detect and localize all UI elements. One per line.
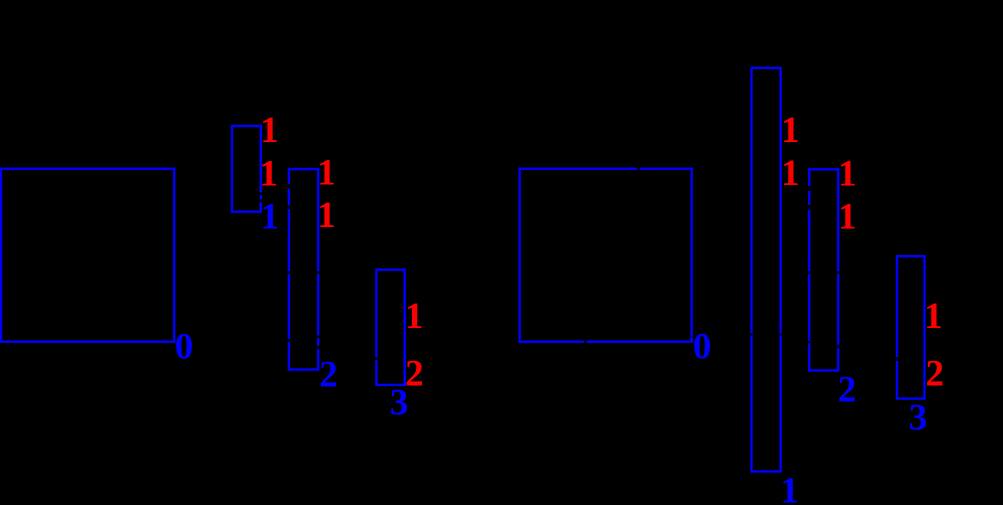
pinch B1 right edge [780,334,783,336]
box A2 (left tall rectangle) [289,169,318,369]
pinch B1 left edge [750,334,753,336]
gap in B2 left edge (upper) [807,186,811,191]
svg-text:1: 1 [405,296,424,337]
gap in A1 right edge (lower) [259,200,263,203]
pinch A3 left edge [374,358,378,361]
svg-text:1: 1 [317,153,336,194]
svg-text:1: 1 [780,471,799,505]
pinch A2 right edge low1 [317,335,320,338]
svg-text:1: 1 [781,110,800,151]
gap in A2 left edge (lower) [287,206,291,210]
svg-text:1: 1 [838,153,857,194]
svg-text:0: 0 [175,327,194,368]
svg-text:1: 1 [261,197,280,238]
pinch B2 right edge low [837,345,840,348]
notch B0 bottom edge [584,340,587,343]
svg-text:2: 2 [926,354,945,395]
pinch A2 right edge low2 [317,346,320,349]
box B2 (right tall rectangle) [809,169,838,370]
svg-text:1: 1 [838,196,857,237]
svg-text:1: 1 [260,110,279,151]
pinch A2 left edge low [287,339,290,342]
svg-text:0: 0 [693,327,712,368]
box A0 (left big square) [1,169,174,342]
gap in A1 right edge (upper) [259,192,263,195]
svg-text:1: 1 [317,195,336,236]
svg-text:3: 3 [390,383,409,424]
pinch B3 left edge [895,357,899,360]
box A3 (left short rectangle) [376,270,404,385]
gap in B2 left edge (lower) [807,205,811,210]
gap in A2 left edge (upper) [287,184,291,189]
pinch B2 left edge low [807,341,810,343]
svg-text:1: 1 [781,153,800,194]
box A1 (left small rectangle) [232,126,261,212]
pinch A2 left edge mid [287,271,290,274]
pinch A2 right edge mid [317,271,320,274]
box B0 (right big square) [520,169,692,342]
notch B0 top edge [637,167,640,170]
svg-text:2: 2 [319,354,338,395]
svg-text:2: 2 [838,370,857,411]
svg-text:1: 1 [259,153,278,194]
box B1 (right very tall rectangle) [752,68,781,472]
pinch B2 left edge mid [807,271,810,274]
box B3 (right short rectangle) [897,256,925,398]
pinch B2 right edge mid [837,271,840,274]
svg-text:3: 3 [909,398,928,439]
svg-text:1: 1 [924,296,943,337]
